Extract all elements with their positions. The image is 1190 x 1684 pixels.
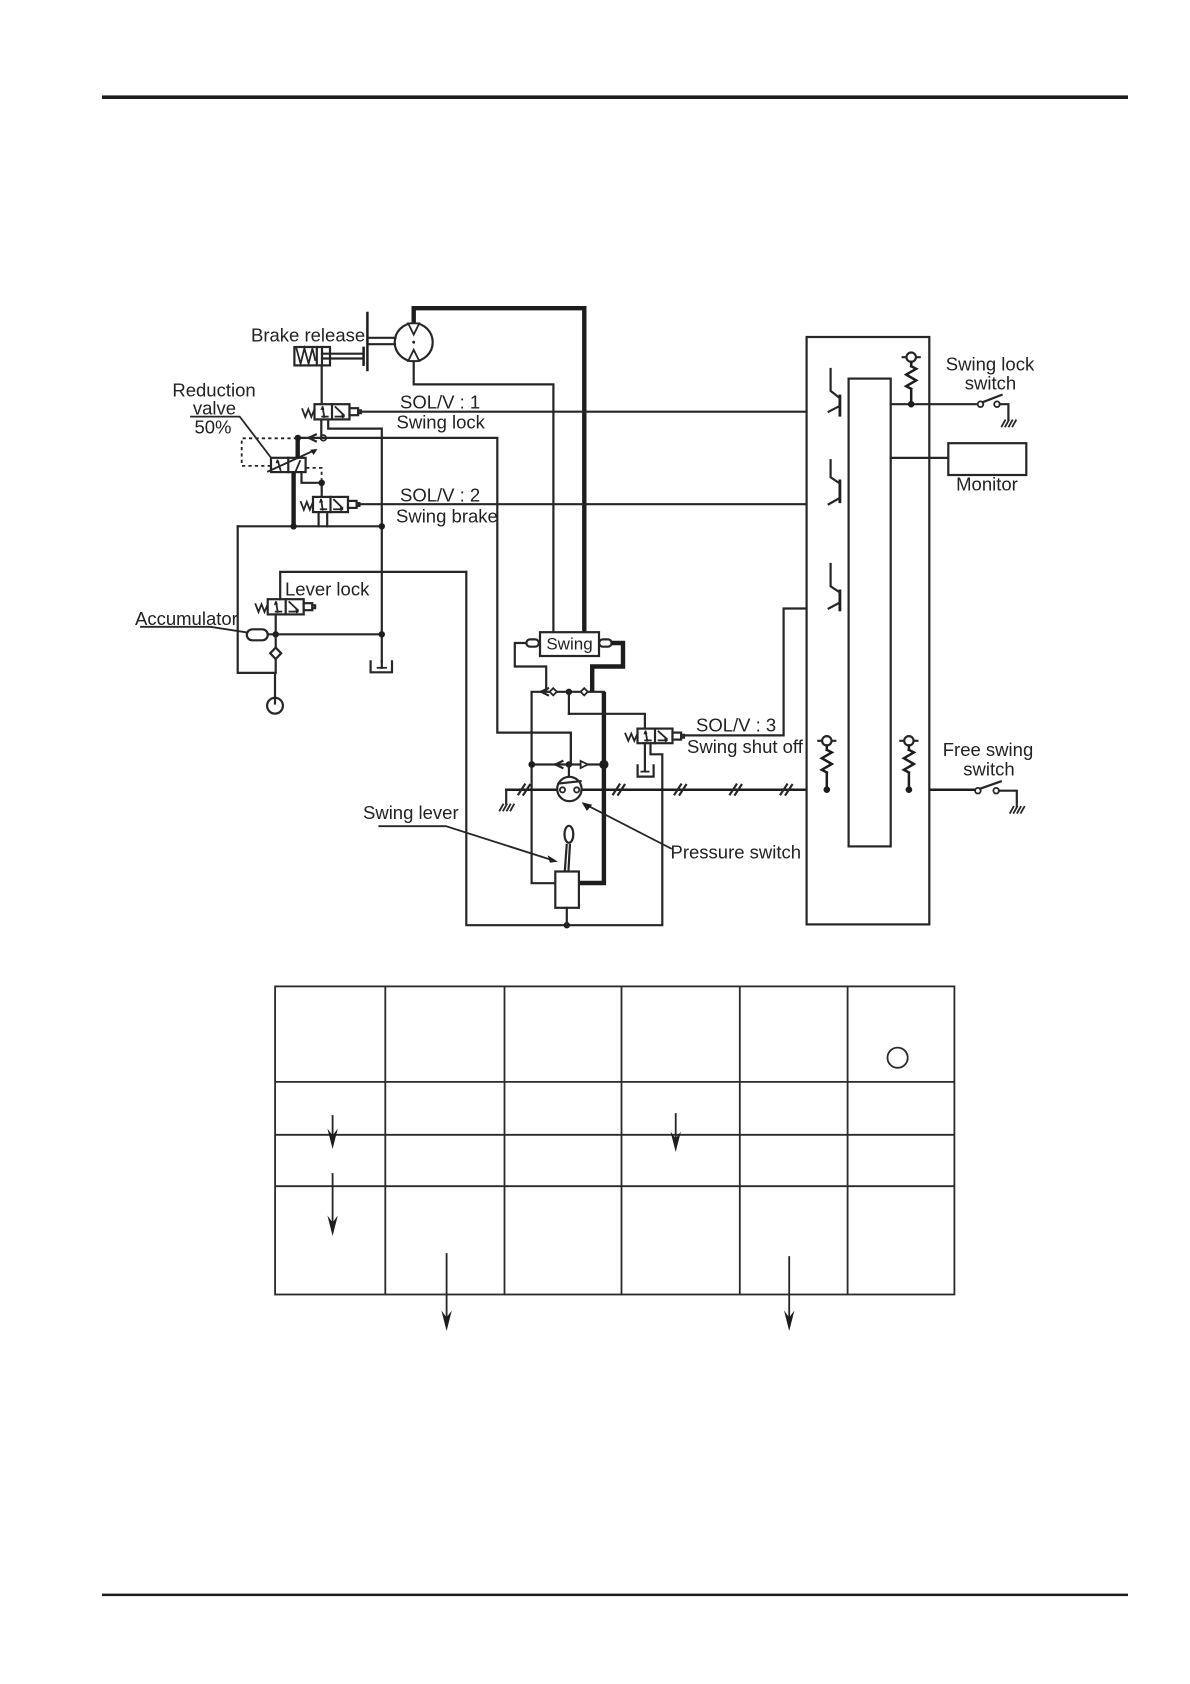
reduction valve (50%) — [271, 458, 306, 472]
pressure switch — [557, 777, 581, 801]
pressure switch signal line — [506, 788, 848, 791]
node pull-down free swing — [906, 786, 913, 793]
block inner passage line — [532, 763, 604, 765]
svg-text:Swing brake: Swing brake — [396, 506, 498, 527]
wire bold through reduction valve — [296, 438, 300, 458]
svg-text:Swing lock: Swing lock — [946, 354, 1035, 375]
page bottom rule — [102, 1594, 1128, 1597]
pilot valve Swing section — [540, 632, 599, 656]
swing pilot port right — [599, 639, 611, 646]
svg-text:Pressure switch: Pressure switch — [671, 842, 802, 863]
accumulator — [247, 629, 268, 640]
svg-text:SOL/V : 3: SOL/V : 3 — [696, 715, 776, 736]
svg-text:Brake release: Brake release — [251, 325, 365, 346]
motor shaft — [369, 337, 396, 339]
wire accumulator node line to tank branch — [268, 633, 382, 635]
wire bold pilot supply line: motor top to Swing pilot valve — [414, 308, 585, 632]
orifice on pilot junction — [321, 435, 326, 440]
svg-text:switch: switch — [963, 759, 1014, 780]
node supply junction right — [379, 523, 385, 529]
node bold block inner right — [599, 760, 608, 769]
wire lever lock feed line — [280, 572, 466, 599]
reduction valve dashed enclosure — [242, 438, 297, 466]
table arrow col4 row2-3 — [675, 1114, 677, 1143]
node pull-down left — [824, 786, 831, 793]
check valve — [275, 634, 277, 673]
wire swing pilot left output — [515, 643, 546, 692]
svg-text:SOL/V : 1: SOL/V : 1 — [400, 392, 480, 413]
wire signal line left end to ground — [505, 790, 507, 804]
node block inner center — [566, 761, 572, 767]
table arrow col2 below — [446, 1254, 448, 1322]
brake piston rod — [322, 353, 363, 355]
node swing lever drain — [564, 922, 570, 928]
hash marks on signal line — [518, 785, 524, 795]
node reduction valve outlet — [319, 480, 325, 486]
wire SOL/V:3 return to drain manifold — [466, 572, 662, 925]
wire switch to ground — [1000, 404, 1009, 419]
node accumulator — [273, 631, 279, 637]
transistor Q3 — [839, 591, 842, 610]
transistor Q2 — [839, 481, 842, 502]
node pull-up junction — [908, 401, 915, 408]
node block inner left — [528, 761, 535, 768]
swing pilot port left — [526, 639, 538, 646]
svg-text:Accumulator: Accumulator — [135, 608, 238, 629]
node supply junction left — [290, 523, 296, 529]
table arrow col5 below — [788, 1257, 790, 1322]
reduction valve adjust arrow — [268, 451, 314, 472]
table arrow col1 row3-4 — [332, 1174, 334, 1227]
swing lock switch — [978, 401, 984, 407]
svg-text:SOL/V : 2: SOL/V : 2 — [400, 485, 480, 506]
wire free swing switch to ground — [999, 791, 1017, 806]
wire SOL/V:1 drain to tank line — [328, 420, 382, 662]
wire bold swing pilot right output — [592, 643, 623, 692]
wire SOL/V:2 drain ports — [318, 512, 320, 526]
table arrow col1 row2-3 — [332, 1116, 334, 1140]
node tank branch — [379, 631, 385, 637]
brake release cylinder — [294, 347, 330, 365]
monitor unit — [948, 443, 1026, 475]
solenoid valve SOL/V:1 swing lock — [315, 404, 350, 419]
svg-text:Lever lock: Lever lock — [285, 579, 370, 600]
wire pilot junction line to swing-lock piston passage — [298, 438, 571, 765]
ground free swing switch — [1010, 807, 1013, 813]
solenoid valve SOL/V:3 swing shut off — [638, 729, 673, 744]
table indicator circle — [888, 1048, 908, 1068]
wire motor return line to Swing pilot valve — [414, 362, 554, 632]
result table grid — [275, 986, 954, 1294]
resistor pull-down free swing — [900, 740, 917, 742]
svg-text:Swing: Swing — [546, 635, 592, 654]
remote control valve block — [532, 692, 604, 883]
wire brake cylinder to SOL/V:1 — [321, 365, 323, 404]
wire swing lock switch line — [891, 403, 978, 405]
wire accumulator circuit left branch to pump — [238, 526, 275, 673]
wire accumulator circuit top line — [238, 525, 382, 527]
page top rule — [102, 95, 1128, 99]
svg-text:switch: switch — [965, 373, 1016, 394]
wire SOL/V:3 drain to tank — [644, 743, 646, 770]
tank T2 — [638, 765, 654, 776]
brake disc bar — [366, 313, 369, 370]
wire block to SOL/V:3 feed — [569, 714, 645, 729]
resistor pull-up swing lock — [903, 356, 920, 358]
ground swing lock switch — [1002, 420, 1005, 426]
swing motor M1 — [395, 323, 433, 361]
wire lever lock to accumulator node — [275, 614, 277, 634]
svg-text:valve: valve — [193, 398, 236, 419]
wire SOL/V:1 port to pilot junction — [320, 420, 322, 436]
wire reduction valve to SOL/V:2 — [302, 472, 322, 497]
solenoid valve SOL/V:2 swing brake — [313, 497, 348, 512]
wire SOL/V:1 to controller transistor Q1 — [361, 411, 829, 413]
wire monitor line — [891, 457, 949, 459]
resistor pull-down left — [818, 740, 835, 742]
free swing switch — [975, 788, 981, 794]
controller CPU inner box — [849, 379, 891, 847]
tank T1 — [371, 661, 392, 672]
swing lever — [565, 845, 567, 872]
block top port symbols — [541, 688, 548, 695]
svg-text:Free swing: Free swing — [943, 739, 1033, 760]
node pilot junction — [295, 435, 301, 441]
svg-text:Swing lever: Swing lever — [363, 802, 459, 823]
wire SOL/V:3 to controller transistor Q3 — [684, 609, 829, 736]
controller box — [807, 337, 930, 924]
wire SOL/V:2 to controller transistor Q2 — [359, 503, 829, 505]
svg-text:50%: 50% — [194, 417, 231, 438]
svg-text:Swing shut off: Swing shut off — [687, 736, 804, 757]
svg-text:Swing lock: Swing lock — [397, 412, 486, 433]
transistor Q1 — [839, 396, 842, 415]
wire block center branch — [568, 692, 570, 714]
solenoid valve lever lock — [268, 599, 304, 614]
node block top — [566, 689, 572, 695]
ground signal line — [500, 805, 503, 811]
pilot pump — [267, 698, 283, 714]
svg-text:Monitor: Monitor — [956, 474, 1018, 495]
